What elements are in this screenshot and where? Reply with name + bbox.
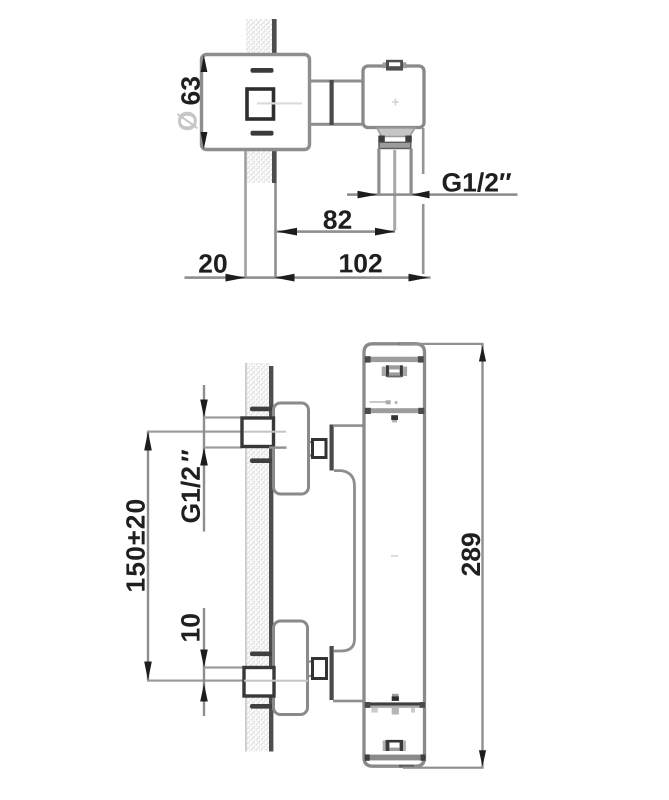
top inlet: collar bar	[330, 425, 334, 471]
label 82	[324, 210, 352, 229]
label 150±20 (rotated)	[126, 500, 145, 591]
bottom junction dark line	[366, 702, 425, 705]
body top edge dark segment	[400, 343, 415, 346]
dim G1/2 arrow lower	[200, 448, 208, 466]
top junction end block left	[365, 408, 371, 414]
outlet tube right wall	[410, 149, 413, 194]
dim 289 line	[481, 344, 483, 768]
bottom inlet: wall hole bar upper	[250, 652, 273, 657]
top inlet: link to body	[333, 424, 365, 427]
neck collar bar	[330, 80, 334, 125]
dim 82 arrow right	[375, 228, 395, 236]
top slot side block right	[400, 365, 403, 377]
dim 20 arrow (outside, pointing right)	[226, 274, 246, 282]
dim 289 arrow top	[479, 346, 486, 362]
faint dashes under slot	[370, 401, 391, 403]
body top tab wing right	[403, 62, 407, 68]
bottom inlet: collar bar	[330, 646, 334, 700]
wall hatch (section)	[246, 19, 272, 183]
label diameter symbol (rotated, faint)	[177, 112, 197, 130]
top inlet: wall hole bar upper	[250, 407, 273, 412]
centerline through top escutcheon (faint)	[244, 431, 286, 433]
outlet ring left block	[378, 136, 385, 143]
bottom band side mark left	[371, 708, 378, 713]
body top tab	[386, 60, 403, 71]
bottom inlet: link to body	[333, 700, 366, 703]
dim 82 line	[277, 230, 395, 233]
top slot upper band	[389, 365, 400, 369]
dim 289 bottom extension	[403, 767, 484, 769]
tube centerline	[393, 150, 396, 231]
top inlet: check valve square	[313, 440, 327, 458]
dim 10 arrow upper	[200, 650, 208, 668]
valve body	[363, 66, 424, 128]
top inlet: wall hole bar lower	[250, 458, 273, 463]
top slot bottom band	[389, 372, 400, 377]
top slot wing right	[403, 367, 407, 377]
dim 150±20 arrow bottom	[144, 662, 152, 681]
dim 289 arrow bottom	[479, 750, 486, 766]
dim 289 top extension	[400, 343, 484, 345]
dim 20/102 baseline	[185, 276, 431, 279]
top junction notch	[391, 415, 398, 420]
G1/2 extension bottom	[204, 446, 242, 448]
bracket profile curve	[334, 471, 355, 651]
dim 10 arrow lower	[200, 684, 208, 702]
dim G1/2 arrow right	[412, 191, 430, 199]
handle centerline (faint)	[257, 102, 302, 104]
G1/2 extension bottom right segment	[269, 446, 287, 448]
bottom cap band	[366, 755, 423, 761]
outlet trapezoid	[377, 128, 415, 137]
outlet ring right block	[405, 136, 412, 143]
dim 63 arrow bottom	[201, 132, 208, 149]
label 102	[340, 254, 382, 273]
mid body faint mark	[391, 555, 398, 557]
top inlet: escutcheon	[274, 403, 309, 494]
neck bottom line	[308, 123, 362, 126]
top inlet: connector links	[309, 442, 314, 456]
outlet tube left wall	[377, 149, 380, 194]
aerator band	[379, 142, 411, 148]
label 10 (rotated)	[181, 614, 200, 641]
bottom slot side block right	[400, 741, 403, 752]
top slot side block left	[386, 365, 389, 377]
body top tab wing left	[383, 62, 387, 68]
dim G1/2 arrow upper	[200, 400, 208, 418]
top slot wing left	[382, 367, 386, 377]
centerline through bottom escutcheon (faint)	[244, 680, 308, 682]
dim 10 vertical line	[203, 608, 205, 716]
bottom junction notch	[392, 696, 399, 701]
wall front face line	[269, 366, 273, 752]
top junction notch tail	[392, 420, 397, 422]
label 63 (rotated)	[181, 77, 200, 105]
dim 150±20 line	[147, 432, 149, 680]
label G1/2 (rotated)	[181, 450, 201, 523]
bottom junction notch cap	[392, 694, 399, 697]
bottom inlet: escutcheon	[274, 621, 308, 715]
body bottom edge dark segment	[399, 765, 414, 768]
body top tab window	[389, 62, 400, 66]
top junction end block right	[418, 408, 424, 414]
bottom junction gray line	[366, 706, 425, 708]
G1/2 extension top	[204, 416, 242, 418]
bottom band side mark right	[411, 708, 415, 713]
handle inner square	[247, 89, 274, 119]
bottom inlet: check valve square	[313, 659, 327, 679]
bottom inlet: connector links	[308, 662, 313, 677]
dim 82 arrow left	[277, 228, 297, 236]
bottom inlet: wall hole bar lower	[250, 704, 273, 709]
bottom junction end block right	[420, 702, 426, 708]
bottom slot lower band	[389, 748, 399, 751]
bottom cap end block right	[421, 754, 426, 760]
body center mark (faint)	[392, 99, 399, 106]
dim 10 extension top	[204, 666, 244, 668]
label G1/2 top view	[443, 172, 512, 192]
faint dash block	[386, 400, 391, 404]
body right extension line upper	[422, 128, 425, 174]
mixer bar body outline	[364, 344, 425, 766]
top junction band	[365, 408, 424, 413]
handle knob body (Ø63)	[202, 55, 310, 150]
dim 63 arrow top	[201, 55, 208, 72]
seam end block left	[365, 356, 371, 362]
neck top line	[308, 80, 362, 83]
wall hole bar bottom	[251, 131, 274, 136]
bottom slot top edge	[386, 740, 403, 743]
bottom junction end block left	[365, 702, 371, 708]
dim 150±20 bottom extension / centerline	[147, 680, 244, 682]
body right extension line lower	[422, 204, 425, 274]
label 289 (rotated)	[462, 533, 481, 575]
dim G1/2 arrow left	[358, 191, 378, 199]
faint dash tick	[395, 401, 398, 404]
dim 150±20 top extension / centerline	[147, 431, 242, 433]
wall hole bar top	[251, 68, 274, 73]
wall front face line	[272, 19, 277, 183]
wall hatch (section)	[246, 363, 270, 752]
wall back face line	[245, 363, 247, 752]
bottom cap end block left	[365, 754, 370, 760]
dim G1/2 vertical line (bottom view)	[203, 385, 205, 532]
dim 150±20 arrow top	[144, 432, 152, 451]
label 20	[199, 254, 227, 273]
bottom slot side block left	[386, 741, 390, 752]
bottom slot wing left	[383, 741, 386, 752]
bottom slot wing right	[403, 741, 406, 752]
dim 102 arrow left (pointing left)	[275, 274, 295, 282]
wall back face extension line	[244, 150, 247, 279]
dim G1/2 line	[347, 193, 518, 196]
seam end block right	[418, 356, 424, 362]
bottom inlet: nut	[244, 668, 274, 697]
wall front face extension line	[274, 183, 277, 279]
dim 102 arrow right (pointing right)	[409, 274, 429, 282]
top slot bottom edge	[387, 376, 402, 378]
bottom junction center column	[392, 708, 399, 715]
top inlet: nut	[242, 418, 274, 447]
body cap seam band	[366, 357, 423, 362]
